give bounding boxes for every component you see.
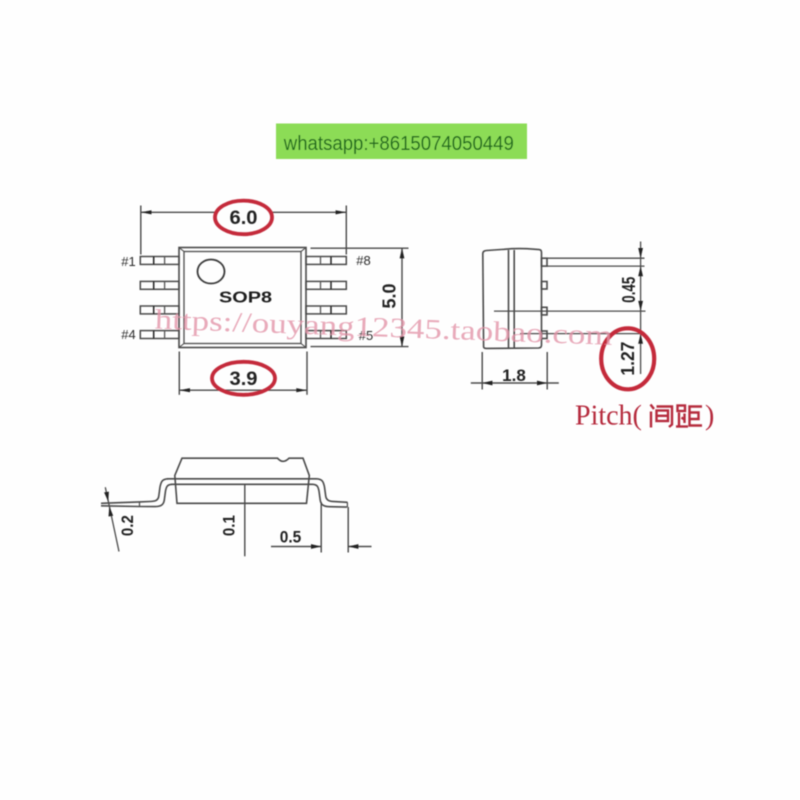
svg-text:0.45: 0.45 [619,277,639,303]
svg-text:#8: #8 [356,253,370,268]
svg-text:0.1: 0.1 [220,515,239,536]
svg-text:whatsapp:+8615074050449: whatsapp:+8615074050449 [283,133,514,155]
svg-text:SOP8: SOP8 [219,290,272,307]
svg-text:0.5: 0.5 [280,528,302,546]
svg-text:5.0: 5.0 [380,284,400,309]
svg-text:1.8: 1.8 [502,366,526,385]
svg-text:#4: #4 [121,327,135,342]
svg-text:): ) [705,401,714,432]
svg-text:1.27: 1.27 [618,342,638,376]
svg-text:Pitch(: Pitch( [575,401,642,432]
svg-text:0.2: 0.2 [118,515,137,536]
svg-text:3.9: 3.9 [230,369,258,390]
svg-text:6.0: 6.0 [230,208,258,229]
svg-text:#1: #1 [121,254,135,269]
